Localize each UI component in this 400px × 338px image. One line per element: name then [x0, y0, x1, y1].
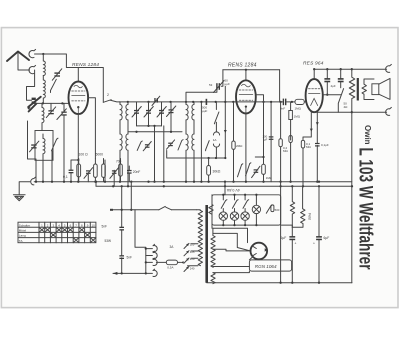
power transformer heater secondary — [211, 273, 215, 284]
oscillator coil T4 primary — [186, 134, 188, 182]
svg-text:RGN 1064: RGN 1064 — [255, 264, 277, 269]
IF transformer T1 secondary — [126, 102, 128, 134]
electrolytic capacitor 6uF b — [313, 186, 329, 282]
vertical x163.8 — [163, 126, 165, 182]
coil shield box B1 — [35, 131, 53, 161]
wire supply bus left end — [95, 182, 97, 187]
mains switch — [159, 206, 172, 209]
node — [121, 272, 123, 274]
terminal blob — [110, 209, 113, 211]
oscillator coil T3 secondary — [192, 102, 194, 134]
svg-text:6μF: 6μF — [281, 236, 287, 240]
wire to fuse — [156, 261, 166, 263]
resistor 700 — [116, 159, 122, 182]
tube U2 electrodes — [239, 84, 253, 113]
resistor 500 in box — [271, 205, 280, 212]
wire cathode tube3 to speaker return — [314, 111, 352, 113]
oscillator coil T4 secondary — [192, 134, 194, 182]
power transformer core — [205, 205, 208, 283]
bottom rail — [207, 282, 352, 284]
svg-text:20nF: 20nF — [133, 170, 141, 174]
mains plug pin 1 — [153, 244, 157, 251]
capacitor C12 with arrow — [143, 142, 151, 151]
svg-text:110: 110 — [190, 243, 195, 247]
voltage selector arrow 240 — [184, 266, 195, 271]
tube U1 electrodes — [72, 85, 85, 113]
wire junction row — [137, 125, 162, 127]
svg-text:μF: μF — [264, 138, 268, 142]
anode bus top y69.8 — [223, 69, 280, 71]
voltage selector arrow 110 — [184, 243, 195, 249]
svg-text:L 103 W Weltfahrer: L 103 W Weltfahrer — [355, 148, 376, 270]
node — [207, 157, 209, 159]
svg-text:220: 220 — [190, 257, 195, 261]
wire anode tube1 — [88, 98, 95, 159]
switch S4 — [214, 102, 219, 124]
svg-text:1MΩ: 1MΩ — [295, 107, 302, 111]
switch S5c — [206, 141, 210, 151]
mains plug pin 3 — [153, 258, 157, 265]
wire plug column — [135, 210, 146, 274]
tuning capacitor VC1 — [27, 97, 41, 112]
trimmer capacitor C4 — [30, 141, 39, 152]
lamp switch Sw1 — [221, 195, 227, 209]
antenna jack J1 — [29, 49, 36, 57]
svg-text:53W: 53W — [105, 239, 112, 243]
IF transformer T1 primary — [120, 102, 122, 134]
output resistor zigzag — [349, 69, 355, 283]
antenna jack J2 — [29, 65, 36, 73]
mains plug pin 4 — [153, 269, 157, 276]
svg-text:0,1μF: 0,1μF — [321, 143, 329, 147]
coil L4 — [43, 134, 45, 160]
capacitor 100uF on screen line — [263, 135, 274, 142]
switch Sw4 — [266, 206, 272, 214]
capacitor 0,1 — [63, 159, 79, 182]
node dots top bus — [245, 69, 247, 71]
tube U3 electrodes — [309, 89, 321, 106]
svg-text:5nF: 5nF — [127, 255, 133, 259]
IF transformer T2 secondary — [126, 134, 128, 186]
switch S3 — [52, 138, 59, 151]
capacitor with arrow Cc — [110, 168, 119, 187]
switch Sd2 — [246, 163, 251, 176]
svg-text:240: 240 — [190, 267, 195, 271]
node — [145, 247, 147, 249]
vertical to ground x154.5 — [154, 126, 156, 182]
speaker jack bottom — [386, 107, 392, 115]
tap wire HT mid — [213, 233, 251, 251]
voltage selector arrow 220 — [184, 257, 195, 263]
earth ground symbol — [13, 195, 25, 201]
resistor 5000 — [94, 153, 104, 182]
padding capacitor on bus — [152, 96, 160, 105]
vertical x280.6 to rail — [280, 182, 282, 283]
svg-text:+: + — [313, 242, 315, 246]
node dots on RF bus — [127, 101, 129, 103]
switch S6 — [338, 89, 343, 113]
wire oscillator vertical — [200, 102, 202, 182]
resistor 100ohm — [77, 153, 88, 182]
node — [121, 209, 123, 211]
trimmer capacitor C10 — [157, 102, 166, 126]
node: antenna tap — [42, 53, 44, 55]
dial lamp box — [212, 195, 281, 225]
tube U3 RES 964 envelope — [306, 79, 323, 112]
node dots on ground bus — [35, 181, 37, 183]
svg-text:4V 0,8A: 4V 0,8A — [226, 188, 240, 192]
trimmer capacitor C3 — [57, 103, 67, 181]
svg-text:5nF: 5nF — [102, 225, 108, 229]
ground bus main y181.7 — [34, 181, 352, 183]
resistor Ri 0,1M — [301, 112, 313, 186]
svg-text:10: 10 — [91, 223, 95, 227]
coil L3 — [42, 103, 44, 130]
IF transformer T2 primary — [120, 134, 122, 182]
rectifier RGN 1064 — [250, 243, 267, 260]
svg-text:0,1: 0,1 — [63, 175, 68, 179]
wire to speaker jacks — [352, 69, 387, 112]
svg-text:μμF: μμF — [225, 82, 230, 86]
svg-text:Owin: Owin — [363, 125, 372, 145]
output transformer core — [357, 78, 359, 101]
wire left branch — [28, 121, 37, 182]
resistor Rg 0,2M — [279, 70, 289, 182]
chassis wire bottom left — [113, 272, 152, 274]
wire to earth — [19, 182, 30, 195]
antenna — [7, 52, 30, 71]
svg-text:MΩ: MΩ — [283, 149, 288, 153]
trimmer capacitor C9 — [144, 102, 153, 126]
svg-text:+: + — [295, 242, 297, 246]
transformer primary taps — [188, 244, 198, 266]
band switch table — [18, 222, 96, 243]
node anode tube3 — [326, 94, 328, 96]
wire trimmer feed — [186, 90, 217, 102]
wire rectifier cathode — [249, 257, 253, 260]
svg-text:1MΩ: 1MΩ — [294, 115, 301, 119]
trimmer capacitor C2 — [46, 103, 55, 117]
arrow end — [113, 272, 118, 275]
capacitor 500 on bus — [202, 99, 207, 113]
tap wire heater tubes — [213, 271, 250, 273]
capacitor 20nF — [127, 166, 140, 182]
power transformer primary winding — [198, 210, 202, 265]
svg-text:MΩ: MΩ — [306, 145, 311, 149]
svg-text:RENS 1284: RENS 1284 — [228, 63, 257, 69]
lamp switch Sw2 — [232, 195, 238, 209]
svg-text:RENS 1284: RENS 1284 — [72, 62, 99, 68]
node — [42, 102, 44, 104]
wire antenna to grid — [35, 54, 104, 102]
svg-text:Mittel: Mittel — [19, 229, 27, 233]
trimmer capacitor C8 — [132, 102, 141, 126]
wire switch to bus — [51, 151, 53, 182]
resistor Rc — [102, 159, 106, 182]
mains feed wire y209.8 — [111, 209, 196, 211]
vertical x131.3 — [130, 182, 132, 210]
svg-text:Lang: Lang — [19, 234, 26, 238]
dial lamp La2 — [230, 209, 238, 226]
wire cathode tube1 to bus — [77, 114, 79, 182]
tube U3 stem — [313, 69, 315, 79]
capacitor with arrow Cb — [84, 168, 93, 182]
vertical x271 — [270, 102, 272, 182]
vertical x105 — [104, 160, 106, 182]
wire stubs to plug pins — [146, 249, 153, 263]
svg-text:RES 964: RES 964 — [303, 61, 324, 67]
svg-text:30kΩ: 30kΩ — [213, 170, 221, 174]
resistor Re — [255, 156, 271, 182]
wire y158 row — [167, 151, 225, 159]
svg-text:0,5A: 0,5A — [167, 266, 173, 270]
node — [147, 125, 149, 127]
capacitor 5nF b — [119, 255, 132, 259]
tube U2 RENS 1284 envelope — [236, 80, 256, 113]
capacitor 5nF a — [102, 225, 125, 231]
wire lamp box to field coil — [281, 225, 293, 227]
fuse 1A — [213, 122, 220, 158]
tap wire HT bottom — [213, 266, 250, 268]
svg-text:5000: 5000 — [96, 153, 104, 157]
dial lamp La3 — [241, 209, 249, 226]
blocking capacitor on top bus a — [324, 69, 335, 95]
svg-text:μμF: μμF — [202, 109, 207, 113]
tube U2 stem — [245, 70, 247, 81]
svg-text:53: 53 — [209, 83, 213, 87]
capacitor 0,1uF cathode — [315, 112, 329, 182]
tap wire heater RGN — [213, 249, 251, 251]
resistor Rh — [289, 136, 292, 182]
wire grid line tube1 — [34, 102, 69, 104]
node dots rail — [279, 282, 281, 284]
switch Sd1 — [238, 164, 243, 177]
coupling capacitor C7 on bus — [280, 99, 295, 111]
wire bus to lamp box — [224, 182, 226, 195]
trimmer capacitor C1 — [52, 69, 62, 80]
speaker cone — [372, 78, 390, 99]
svg-text:4μF: 4μF — [331, 84, 336, 88]
field coil zigzag — [301, 186, 305, 227]
wire to primary top — [197, 209, 201, 212]
node dots supply bus — [112, 185, 114, 187]
wire loop to loop antenna — [27, 70, 35, 100]
svg-text:2MΩ: 2MΩ — [236, 144, 243, 148]
wire anode tube3 — [323, 94, 341, 96]
dial lamp La4 — [252, 195, 260, 225]
coil L1 antenna primary — [43, 54, 45, 75]
oscillator coil T3 primary — [186, 102, 188, 134]
wire cathode tube2 — [245, 114, 247, 182]
resistor 30k — [207, 158, 221, 182]
grid resistor R-g3 — [295, 99, 304, 104]
lamp switch Sw3 — [243, 195, 249, 209]
dial lamp La1 — [219, 209, 227, 226]
svg-text:Schalter: Schalter — [19, 223, 30, 227]
speaker jack top — [386, 64, 392, 72]
blocking capacitor on top bus b — [338, 69, 344, 88]
voltage selector arrow 125 — [184, 250, 195, 256]
coil L2 antenna secondary — [43, 76, 45, 104]
grid resistor R-d vertical — [289, 102, 301, 140]
smoothing resistor zigzag — [290, 186, 294, 227]
table X marks row TA — [74, 238, 96, 242]
switch S2 — [103, 100, 120, 103]
RF bus wire y102 — [120, 101, 284, 103]
svg-text:6μF: 6μF — [324, 236, 330, 240]
switch S5a — [137, 141, 142, 150]
wire joining zigzag bottoms — [292, 226, 302, 228]
wire to tube3 grid — [304, 101, 306, 103]
anode bus right segment — [314, 68, 352, 70]
wire box to bus — [42, 160, 44, 181]
electrolytic capacitor 6uF a — [281, 227, 297, 283]
speaker voice coil — [362, 79, 374, 100]
node — [61, 102, 63, 104]
rectifier label box — [249, 260, 291, 271]
wire lower row — [128, 131, 182, 133]
table X marks row Lang — [51, 233, 90, 237]
oscillator trimmer C6 — [209, 70, 230, 93]
node dots lamp box — [222, 224, 224, 226]
svg-text:100 Ω: 100 Ω — [79, 153, 89, 157]
mains filter vertical — [121, 186, 123, 273]
svg-text:125: 125 — [190, 250, 195, 254]
power transformer HT secondary — [211, 228, 215, 267]
table X marks row Mittel — [40, 228, 84, 232]
svg-text:700: 700 — [116, 160, 122, 164]
resistor 2Mohm top — [232, 102, 243, 182]
svg-text:Feld: Feld — [307, 213, 311, 220]
svg-text:500: 500 — [275, 208, 280, 212]
tap wire HT top to rectifier anode — [213, 228, 248, 242]
node — [351, 68, 353, 70]
vertical x225.3 — [224, 86, 226, 158]
switch S5b — [178, 140, 183, 150]
svg-text:2: 2 — [107, 93, 109, 97]
trimmer capacitor C11 — [167, 102, 176, 132]
mains plug pin 2 — [153, 251, 157, 258]
capacitor with arrow Cd — [252, 166, 260, 177]
wire anode tube2 — [256, 95, 264, 157]
supply bus y186.3 — [96, 185, 352, 187]
ballast zigzag on box edge — [209, 195, 213, 228]
ground bus jack — [31, 177, 36, 185]
fuse 0,5A — [166, 245, 183, 270]
tube U1 RENS 1284 envelope — [69, 82, 89, 115]
capacitor C13 with arrow — [167, 140, 175, 149]
switch S1 wave band — [51, 79, 57, 92]
